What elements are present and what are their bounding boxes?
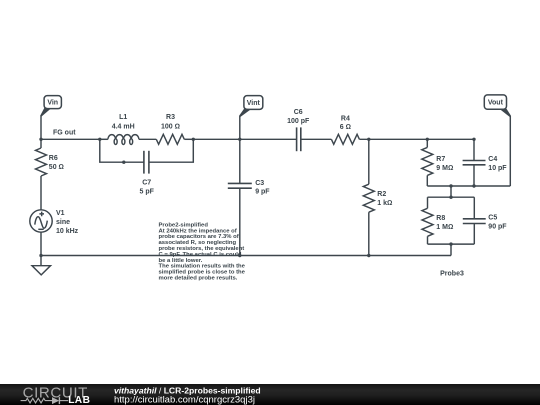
svg-text:Vout: Vout xyxy=(488,100,504,107)
svg-text:6 Ω: 6 Ω xyxy=(340,124,351,131)
source V1 xyxy=(30,210,79,256)
svg-text:1 MΩ: 1 MΩ xyxy=(436,224,453,231)
resistor R2 xyxy=(363,139,392,255)
svg-text:C6: C6 xyxy=(294,109,303,116)
node Vint xyxy=(238,138,241,141)
node R2 bottom xyxy=(367,254,370,257)
ground rail xyxy=(41,255,451,257)
resistor R3 xyxy=(156,114,193,144)
svg-text:R7: R7 xyxy=(436,156,445,163)
node C3 bottom xyxy=(238,254,241,257)
svg-text:R3: R3 xyxy=(166,114,175,121)
svg-text:C3: C3 xyxy=(255,180,264,187)
node C4 bottom xyxy=(472,184,475,187)
node box2 bottom xyxy=(449,242,452,245)
resistor R4 xyxy=(331,115,359,144)
flag Vout xyxy=(484,95,511,186)
node R3 right xyxy=(192,138,195,141)
wire: main top rail FG-out to L1 xyxy=(41,138,100,140)
capacitor C4 xyxy=(463,139,508,186)
svg-text:sine: sine xyxy=(56,219,70,226)
capacitor C5 xyxy=(463,197,508,244)
ground xyxy=(32,256,51,275)
svg-text:L1: L1 xyxy=(119,114,127,121)
wire: stub to ground rail xyxy=(450,244,452,255)
svg-text:10 pF: 10 pF xyxy=(488,165,507,172)
node C4 top xyxy=(472,138,475,141)
node link top xyxy=(449,184,452,187)
flag Vin xyxy=(40,96,61,140)
annotation text block xyxy=(159,222,246,281)
node L1 left xyxy=(98,138,101,141)
wire: box2 top rail xyxy=(428,196,475,198)
svg-text:FG out: FG out xyxy=(53,129,76,136)
footer contents xyxy=(0,384,540,405)
flag Vint xyxy=(239,96,263,140)
svg-text:Vin: Vin xyxy=(47,100,58,107)
svg-text:100 pF: 100 pF xyxy=(287,118,310,125)
capacitor C6 xyxy=(287,109,310,151)
resistor R8 xyxy=(422,197,453,244)
svg-text:9 pF: 9 pF xyxy=(255,189,270,196)
node link bottom xyxy=(449,196,452,199)
svg-text:C7: C7 xyxy=(142,180,151,187)
svg-text:LAB: LAB xyxy=(68,395,90,405)
svg-text:9 MΩ: 9 MΩ xyxy=(436,165,453,172)
inductor L1 xyxy=(100,114,157,144)
svg-text:Probe3: Probe3 xyxy=(440,270,464,277)
svg-text:R8: R8 xyxy=(436,215,445,222)
resistor R7 xyxy=(422,139,454,186)
svg-text:C4: C4 xyxy=(488,156,497,163)
svg-text:R4: R4 xyxy=(341,115,350,122)
svg-text:V1: V1 xyxy=(56,210,65,217)
svg-text:100 Ω: 100 Ω xyxy=(161,123,180,130)
wire: link between probe sections xyxy=(450,186,452,197)
wire: R4 right to R7/C4 rail xyxy=(359,138,474,140)
wire: R3 right to Vint to C6 xyxy=(193,138,296,140)
capacitor C7 parallel branch xyxy=(100,139,194,195)
svg-text:C5: C5 xyxy=(488,215,497,222)
footer bar xyxy=(0,384,540,405)
svg-text:http://circuitlab.com/cqnrgcrz: http://circuitlab.com/cqnrgcrz3qj3j xyxy=(114,395,255,405)
resistor R6 xyxy=(36,139,64,210)
svg-text:Vint: Vint xyxy=(247,100,261,107)
svg-text:10 kHz: 10 kHz xyxy=(56,228,79,235)
svg-text:90 pF: 90 pF xyxy=(488,224,507,231)
node FG out xyxy=(39,138,42,141)
wire: box1 bottom rail xyxy=(427,185,510,187)
capacitor C3 xyxy=(228,139,271,255)
svg-text:more detailed probe results.: more detailed probe results. xyxy=(159,276,238,282)
svg-text:5 pF: 5 pF xyxy=(140,189,155,196)
node ground tap xyxy=(39,254,42,257)
svg-text:50 Ω: 50 Ω xyxy=(49,164,64,171)
node R7 top xyxy=(426,138,429,141)
wire: C6 right to R4 left xyxy=(301,138,331,140)
node R4 right xyxy=(367,138,370,141)
svg-text:R2: R2 xyxy=(377,191,386,198)
svg-text:1 kΩ: 1 kΩ xyxy=(377,200,392,207)
svg-text:4.4 mH: 4.4 mH xyxy=(112,123,135,130)
wire: box2 bottom rail xyxy=(428,243,475,245)
svg-text:R6: R6 xyxy=(49,155,58,162)
logo squiggle xyxy=(21,397,69,404)
